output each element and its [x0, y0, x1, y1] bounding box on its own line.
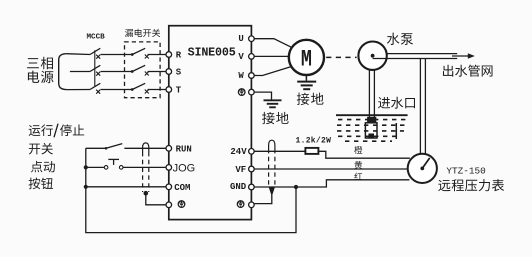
label: 黄 — [354, 161, 362, 169]
svg-text:MCCB: MCCB — [87, 34, 106, 42]
svg-text:SINE005: SINE005 — [188, 46, 236, 60]
inverter U1 box — [169, 26, 252, 220]
svg-text:RUN: RUN — [176, 145, 192, 155]
wire: phase T MCCB to leakage switch — [101, 89, 133, 91]
terminal JOG — [166, 165, 172, 171]
terminal VF — [249, 166, 255, 172]
junction: GND wire — [294, 185, 298, 189]
wire: bus to COM — [86, 186, 166, 188]
svg-text:1.2k/2W: 1.2k/2W — [296, 136, 332, 145]
terminal V — [249, 54, 255, 60]
label: 红 — [354, 173, 362, 180]
water ripples — [338, 119, 406, 121]
terminal PE top (earth) — [238, 89, 245, 96]
label: 远程压力表 — [438, 180, 450, 191]
terminal PE (right bottom) — [249, 202, 255, 208]
wire: shield drain to PE (left) — [146, 193, 166, 205]
wire: pushbutton to JOG — [123, 166, 166, 168]
wire: phase T leakage switch to terminal T — [148, 89, 167, 91]
label: three-phase source 三相电源 — [27, 57, 53, 83]
terminal RUN — [166, 146, 172, 152]
wire: toggle to RUN — [124, 147, 166, 149]
svg-text:R: R — [176, 50, 182, 60]
wire: motor to ground — [305, 75, 307, 81]
motor M — [289, 40, 324, 75]
wire: phase R MCCB to leakage switch — [101, 54, 133, 56]
resistor R1 1.2k/2W — [305, 148, 318, 154]
label: 水泵 — [387, 33, 400, 45]
wire: shield drain to PE (right) — [254, 195, 272, 204]
wire: phase R source to MCCB — [66, 53, 90, 56]
wire: phase S leakage switch to terminal S — [148, 71, 167, 73]
label: 接地 (inverter) — [262, 112, 275, 124]
wire: U to motor — [254, 39, 292, 48]
arrow: outlet flow — [452, 55, 470, 57]
svg-text:24V: 24V — [230, 147, 247, 157]
wire: GND to gauge (red) — [254, 180, 409, 187]
wire: W to motor — [254, 67, 291, 76]
wire: V to motor — [254, 55, 289, 57]
svg-text:S: S — [176, 67, 182, 77]
terminal S — [166, 69, 172, 75]
svg-text:JOG: JOG — [173, 163, 196, 175]
foot valve — [367, 117, 376, 123]
pump 水泵 — [358, 42, 386, 70]
pressure gauge YTZ-150 — [408, 154, 437, 183]
svg-text:V: V — [238, 52, 244, 62]
svg-text:GND: GND — [230, 182, 247, 192]
node: three-phase source bracket — [59, 54, 67, 90]
pipe: pump suction — [368, 70, 370, 119]
wire: phase T source to MCCB — [67, 89, 90, 91]
svg-text:VF: VF — [235, 165, 246, 175]
label: run/stop switch 运行/停止 开关 — [29, 124, 84, 155]
label: jog button 点动 按钮 — [29, 161, 55, 189]
junction: bus-COM — [84, 185, 88, 189]
pipe: outlet horizontal — [387, 53, 458, 55]
terminal GND — [249, 184, 255, 190]
svg-text:U: U — [238, 34, 243, 44]
ground symbol (inverter PE) — [264, 99, 282, 101]
shielded cable (control) — [143, 143, 149, 152]
wire: phase R leakage switch to terminal R — [148, 54, 167, 56]
junction: bus-pushbutton — [84, 165, 88, 169]
shielded cable (gauge) — [269, 140, 275, 149]
switch: jog pushbutton — [86, 166, 104, 168]
terminal COM — [166, 184, 172, 190]
label: 进水口 — [378, 97, 390, 109]
pipe: vertical drop to gauge — [419, 59, 421, 156]
shaft: motor to pump (dashed) — [326, 56, 356, 58]
svg-text:COM: COM — [174, 183, 190, 193]
breaker MCCB (3-pole) — [87, 34, 106, 94]
wire: VF to gauge (yellow) — [254, 168, 408, 170]
terminal T — [166, 87, 172, 93]
wire: phase S MCCB to leakage switch — [101, 71, 133, 73]
label: 接地 (motor) — [297, 93, 310, 105]
svg-text:M: M — [301, 48, 312, 73]
terminal U — [249, 36, 255, 42]
wire: 24V to resistor — [254, 150, 305, 152]
switch: run/stop toggle — [86, 147, 106, 149]
wire: PE terminal to ground — [254, 92, 271, 100]
svg-text:YTZ-150: YTZ-150 — [446, 166, 486, 177]
water surface — [336, 114, 408, 116]
terminal PE (control left) — [166, 202, 172, 208]
svg-text:T: T — [176, 85, 182, 95]
terminal R — [166, 52, 172, 58]
breaker: residual-current switch 漏电开关 (dashed box) — [125, 29, 161, 98]
label: 橙 — [354, 146, 362, 154]
terminal W — [249, 73, 255, 79]
svg-text:W: W — [238, 71, 244, 81]
terminal 24V — [249, 149, 255, 155]
wire: control common bus (left) — [86, 148, 296, 232]
label: 出水管网 — [443, 65, 453, 77]
ground symbol (motor) — [297, 81, 316, 83]
wire: phase S source to MCCB — [70, 71, 90, 73]
wire: resistor to gauge (orange) — [318, 151, 410, 158]
